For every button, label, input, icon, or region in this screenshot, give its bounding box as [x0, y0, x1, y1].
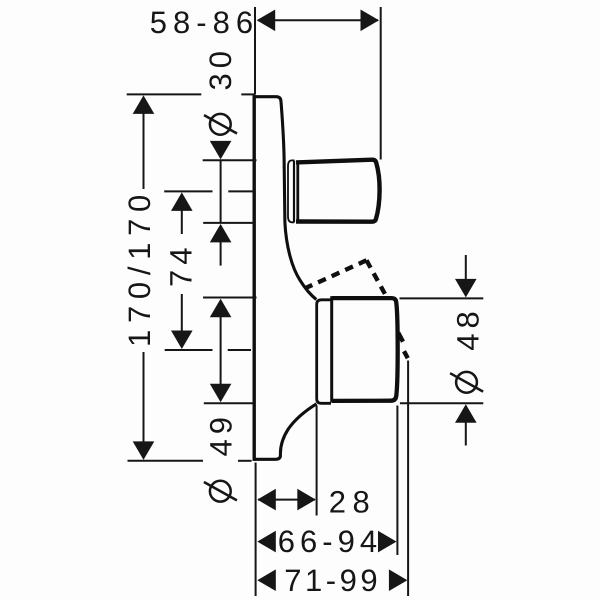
- dimension 170/170 line upper: [143, 112, 145, 189]
- handle collar: [288, 160, 295, 222]
- handle collar right edge: [293, 161, 295, 222]
- dimension dia-49 diameter symbol: [210, 481, 231, 502]
- handle body left edge: [296, 161, 299, 222]
- dashed knob rotated position right edge dash 2: [404, 351, 408, 358]
- tick line at knob bottom left: [204, 402, 254, 404]
- escutcheon plate lower flare and bottom edge: [253, 404, 317, 460]
- tick line at knob bottom right: [400, 402, 483, 404]
- svg-text:49: 49: [204, 412, 239, 456]
- dimension 74 line lower: [181, 294, 183, 332]
- svg-text:74: 74: [164, 243, 199, 287]
- dimension 71-99 left arrowhead: [257, 569, 276, 591]
- tick line at plate top: [127, 93, 202, 95]
- dashed knob rotated position right edge dash 1: [398, 333, 403, 342]
- dimension 170/170 top arrowhead: [133, 95, 155, 114]
- dimension dia-49 up arrowhead: [210, 299, 232, 318]
- valve knob neck: [317, 300, 331, 404]
- dimension 66-94 left arrowhead: [257, 531, 276, 553]
- wire extension line below knob neck: [316, 406, 318, 516]
- tick line at handle top: [203, 159, 257, 161]
- dimension 71-99 right arrowhead: [389, 569, 408, 591]
- svg-text:66-94: 66-94: [278, 524, 382, 559]
- wire extension line top-right: [380, 7, 382, 160]
- dimension 74 top arrowhead: [171, 192, 193, 211]
- dimension 74 bottom arrowhead: [171, 331, 193, 350]
- dashed knob rotated position upper outline: [304, 260, 367, 289]
- valve knob body outline: [332, 298, 398, 401]
- tick line at plate bottom: [128, 460, 204, 462]
- dimension dia-30 tail line: [220, 242, 222, 266]
- tick line at knob top right: [400, 297, 484, 299]
- dimension 28 right arrowhead: [297, 489, 316, 511]
- dimension 58-86 right arrowhead: [361, 10, 380, 32]
- handle U1 body outline: [296, 160, 380, 222]
- wire extension line below knob front: [396, 406, 398, 556]
- svg-text:58-86: 58-86: [150, 5, 259, 40]
- dimension 66-94 right arrowhead: [378, 531, 397, 553]
- valve knob body left edge: [330, 296, 333, 402]
- svg-text:30: 30: [203, 46, 238, 90]
- svg-text:28: 28: [329, 484, 376, 519]
- dimension dia-48 down arrowhead: [455, 279, 477, 298]
- dimension 58-86 arrow line: [258, 19, 378, 21]
- dimension 58-86 left arrowhead: [257, 10, 276, 32]
- dimension 28 left arrowhead: [257, 489, 276, 511]
- dimension dia-30 diameter symbol: [210, 114, 231, 135]
- svg-text:48: 48: [450, 306, 485, 350]
- dimension 28 arrow line: [258, 499, 315, 501]
- dimension dia-48 diameter symbol: [456, 372, 477, 393]
- dimension dia-48 lower line: [465, 421, 467, 446]
- wire extension line below plate: [255, 463, 257, 597]
- dimension 74 line upper: [181, 210, 183, 234]
- dimension 170/170 line lower: [143, 352, 145, 443]
- svg-text:71-99: 71-99: [284, 563, 381, 598]
- svg-text:170/170: 170/170: [122, 188, 157, 347]
- tick line at handle bottom: [203, 222, 255, 224]
- dimension dia-30 line across handle: [220, 160, 222, 223]
- dimension dia-30 down arrowhead: [210, 141, 232, 160]
- tick line at knob centerline: [165, 349, 213, 351]
- escutcheon plate back edge: [252, 95, 255, 461]
- escutcheon plate top and upper front edge: [253, 97, 285, 223]
- dimension dia-49 down arrowhead: [210, 384, 232, 403]
- dimension dia-48 up arrowhead: [455, 404, 477, 423]
- dimension 170/170 bottom arrowhead: [133, 441, 155, 460]
- wire extension line below dashed knob: [407, 361, 409, 597]
- wire extension line top-left: [254, 7, 256, 94]
- dimension dia-30 up arrowhead: [210, 224, 232, 243]
- escutcheon plate front edge flare to valve: [285, 223, 316, 300]
- tick line at knob top left: [203, 297, 257, 299]
- dimension dia-49 line: [220, 316, 222, 385]
- dimension dia-48 upper line: [465, 255, 467, 281]
- tick line at handle centerline: [164, 190, 212, 192]
